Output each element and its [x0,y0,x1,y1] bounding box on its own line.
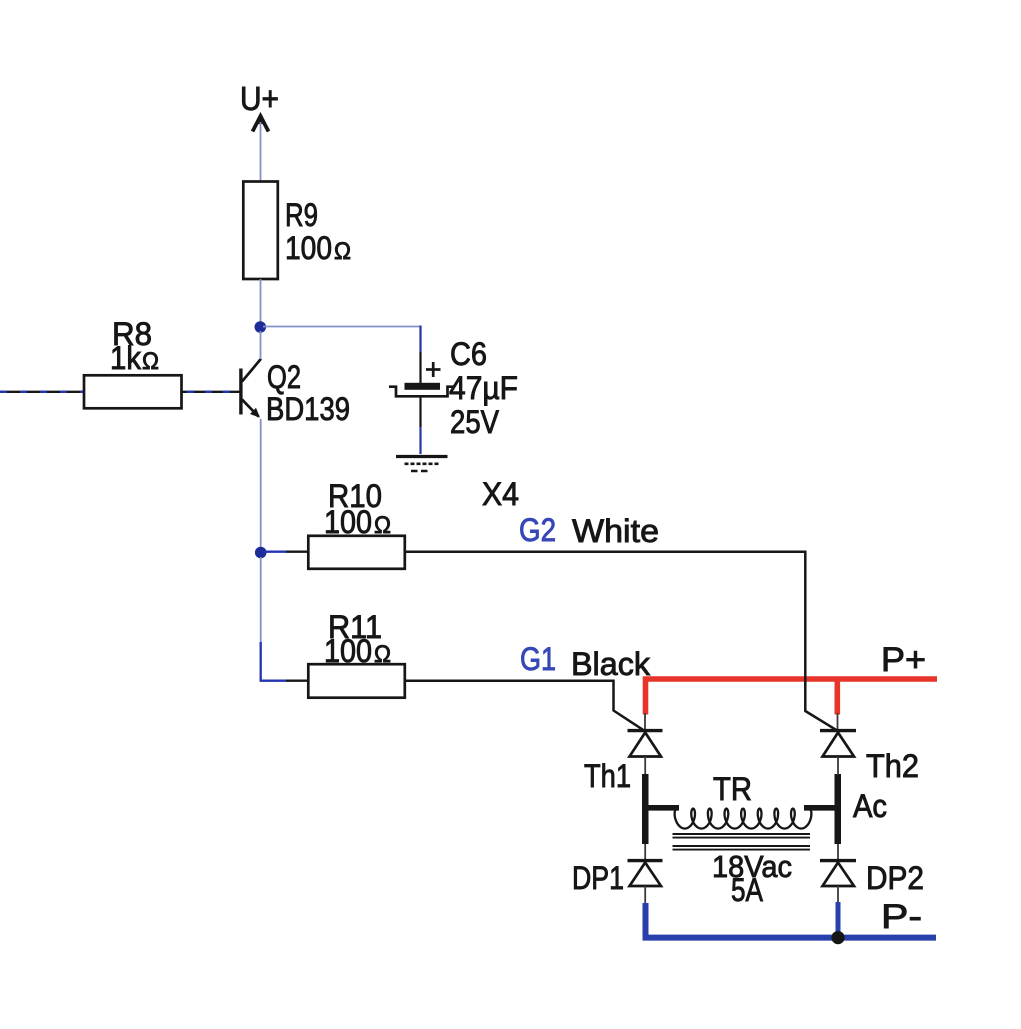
label 100 ohm (R11) [324,633,391,669]
wire G1 from R11 to Th1 gate [405,681,643,730]
svg-text:TR: TR [713,771,752,807]
svg-text:U+: U+ [240,80,279,117]
power arrow U+ [253,116,269,132]
wire Q2 emitter down [260,419,262,548]
svg-text:White: White [572,513,659,549]
wire R8 to Q2 base [182,391,240,393]
svg-text:DP1: DP1 [572,860,624,896]
svg-text:DP2: DP2 [866,860,924,896]
capacitor C6 [389,362,455,396]
label 100 ohm (R10) [324,504,391,540]
transformer TR [642,774,841,850]
svg-text:R9: R9 [285,197,318,233]
svg-text:5A: 5A [731,872,764,908]
svg-text:P+: P+ [881,641,926,679]
svg-text:100: 100 [324,633,372,669]
wire red stub to Th2 [837,713,839,729]
node junction emitter/R10/R11 [255,547,267,559]
resistor R10 [308,536,405,569]
svg-text:1k: 1k [110,340,142,376]
svg-text:G1: G1 [520,641,556,677]
resistor R11 [308,664,405,698]
svg-text:Th1: Th1 [584,758,631,794]
wire Th2 to TR [837,757,839,776]
wire junction to R10 [263,551,308,553]
label 1k ohm [110,340,159,376]
svg-text:Black: Black [571,646,651,682]
svg-text:Ω: Ω [334,238,351,265]
svg-text:Th2: Th2 [866,748,919,784]
wire TR to DP2 [837,844,839,859]
node junction DP2/P- [831,931,844,944]
svg-text:100: 100 [324,504,372,540]
wire P+ red bus [646,679,938,715]
node junction R9/Q2/C6 [254,321,266,333]
wire DP2 to P- [837,886,839,903]
wire R9 to junction [260,279,262,323]
resistor R8 [84,375,182,408]
wire red stub to Th1 [644,713,646,729]
wire input to R8 [0,391,84,393]
diode DP2 [820,861,856,886]
label 100 ohm (R9) [285,230,351,266]
wire DP1 to P- [644,886,646,904]
transistor Q2 [241,359,261,418]
thyristor Th1 [628,731,663,757]
wire Q2 collector to junction [260,331,262,359]
svg-text:P-: P- [881,898,922,936]
wire TR to DP1 [644,844,646,859]
wire Th1 to TR [644,757,646,776]
svg-text:Ω: Ω [374,512,391,539]
svg-text:Ω: Ω [374,641,391,668]
svg-text:47µF: 47µF [449,370,518,406]
wire G2 from R10 to Th2 gate [405,552,836,730]
wire arrow to R9 [260,122,262,181]
svg-text:C6: C6 [450,336,487,372]
diode DP1 [628,861,663,886]
thyristor Th2 [820,731,856,757]
svg-text:25V: 25V [450,404,500,440]
wire C6 to ground [419,396,421,454]
wire P- bus [646,902,937,938]
wire junction to C6 [263,326,421,384]
ground [396,457,448,472]
svg-text:X4: X4 [482,476,519,512]
wire junction down to R11 [261,557,308,681]
svg-text:G2: G2 [519,512,556,548]
svg-text:100: 100 [285,230,332,266]
svg-text:Ac: Ac [853,788,887,824]
svg-text:Q2: Q2 [267,359,301,395]
svg-text:BD139: BD139 [266,391,350,427]
resistor R9 [243,182,277,280]
svg-text:Ω: Ω [142,348,159,375]
